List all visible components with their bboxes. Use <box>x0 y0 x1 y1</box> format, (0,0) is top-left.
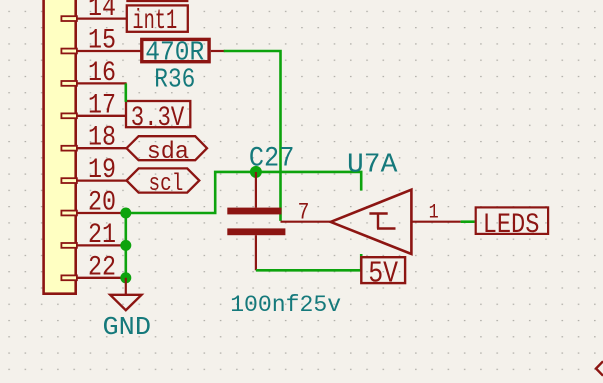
svg-text:sda: sda <box>147 139 189 166</box>
global label sda <box>127 136 208 166</box>
svg-text:GND: GND <box>103 312 152 342</box>
svg-text:C27: C27 <box>249 144 295 175</box>
wire pin16 to 3.3V corner (green) <box>125 83 128 102</box>
svg-text:U7A: U7A <box>347 150 397 180</box>
svg-text:16: 16 <box>88 58 116 89</box>
svg-text:18: 18 <box>88 123 116 154</box>
GND symbol lead <box>125 278 127 295</box>
svg-text:17: 17 <box>88 90 116 121</box>
svg-text:470R: 470R <box>145 39 204 69</box>
svg-text:21: 21 <box>88 220 116 251</box>
capacitor C27 bottom lead <box>255 235 257 270</box>
ground symbol GND <box>110 295 141 310</box>
partial label box above int1 <box>126 0 188 2</box>
svg-text:int1: int1 <box>132 6 177 37</box>
svg-text:5V: 5V <box>368 257 398 291</box>
svg-text:1: 1 <box>429 201 439 224</box>
resistor output pin <box>211 50 225 52</box>
hierarchical label LEDS <box>476 207 548 241</box>
svg-text:3.3V: 3.3V <box>131 103 185 134</box>
capacitor C27 bottom plate <box>227 228 285 235</box>
junction pin21 <box>120 240 131 251</box>
hierarchical label int1 <box>127 5 188 37</box>
svg-text:20: 20 <box>88 188 116 219</box>
op-amp inner pulse glyph <box>369 214 395 229</box>
svg-text:100nf25v: 100nf25v <box>230 292 341 319</box>
pin lines (maroon) pins 14-22 <box>77 19 141 278</box>
svg-text:14: 14 <box>88 0 116 24</box>
svg-text:15: 15 <box>88 26 116 57</box>
junction pin20 <box>120 208 131 219</box>
capacitor C27 top lead <box>255 172 257 208</box>
svg-text:7: 7 <box>298 200 310 227</box>
GND net wire: pins 20-21-22 bus <box>125 213 128 278</box>
capacitor C27 top plate <box>227 208 281 215</box>
svg-text:R36: R36 <box>154 66 195 96</box>
op-amp input pin 7 line <box>281 221 331 223</box>
junction pin22 <box>120 272 131 283</box>
svg-text:LEDS: LEDS <box>483 210 540 241</box>
hierarchical label 3.3V <box>126 101 190 134</box>
global label scl <box>127 168 200 198</box>
junction C27 top <box>250 166 262 178</box>
GND net wire: pin20 to riser <box>126 172 361 213</box>
connector J1 body <box>44 0 76 294</box>
hierarchical label 5V <box>361 257 405 291</box>
wire C27 bottom to 5V (green) <box>256 254 361 270</box>
op-amp output pin 1 line <box>411 221 460 223</box>
svg-text:22: 22 <box>88 252 116 283</box>
wire op-amp output to LEDS (green) <box>461 220 475 223</box>
wire from R36 to op-amp input (green) <box>224 51 281 221</box>
connector pin stubs (pins 14-22) <box>61 16 77 280</box>
partial global label at bottom right <box>596 361 603 375</box>
svg-text:scl: scl <box>149 171 184 198</box>
op-amp U7A triangle <box>331 190 412 254</box>
resistor R36 body <box>142 39 209 61</box>
svg-text:19: 19 <box>88 155 116 186</box>
